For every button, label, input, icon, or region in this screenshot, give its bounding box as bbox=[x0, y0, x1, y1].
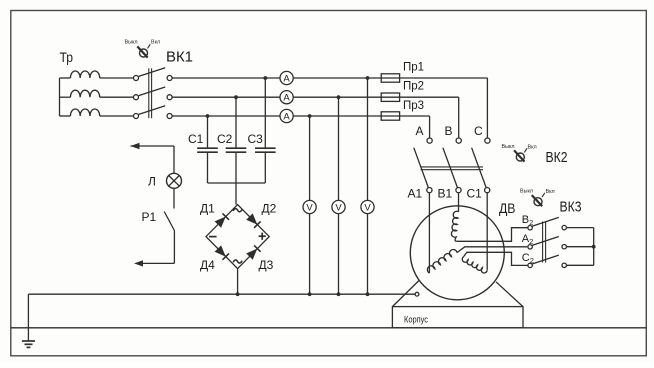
wire L3 ammeter to drop bbox=[293, 115, 429, 117]
wire chassis line bbox=[11, 327, 647, 329]
diode D2 bbox=[246, 213, 260, 227]
svg-text:V: V bbox=[335, 203, 342, 214]
node VK3 bar junction bbox=[592, 245, 596, 249]
wire line to capacitor C3 bbox=[264, 78, 266, 148]
node voltmeter V3 bus junction bbox=[366, 292, 370, 296]
svg-text:Д3: Д3 bbox=[259, 258, 274, 272]
label minus bbox=[209, 236, 217, 238]
wire to arrow bottom bbox=[137, 262, 175, 264]
contact VK3 left pole 3 bbox=[528, 263, 532, 267]
wire line to capacitor C2 bbox=[235, 97, 237, 147]
lamp L bbox=[167, 173, 182, 188]
contact VK3 right pole 1 bbox=[562, 225, 566, 229]
wire L2 VK1 to ammeter bbox=[172, 96, 280, 98]
contact VK2 top pole 2 bbox=[456, 138, 461, 143]
svg-text:А: А bbox=[416, 124, 424, 138]
winding transformer coil row 3 bbox=[70, 109, 99, 116]
svg-text:Выкл: Выкл bbox=[520, 189, 533, 195]
switch VK1 linkage bbox=[149, 68, 152, 118]
wire capacitor C2 to common bar bbox=[235, 153, 237, 183]
svg-text:ВК3: ВК3 bbox=[560, 199, 582, 216]
node voltmeter V2 bus junction bbox=[337, 292, 341, 296]
diode D3 bbox=[246, 245, 260, 259]
wire bridge bottom to bus bbox=[237, 269, 239, 295]
svg-text:Пр1: Пр1 bbox=[403, 62, 424, 74]
wire line to voltmeter V2 bbox=[338, 97, 340, 200]
motor DV stator circle bbox=[410, 206, 504, 300]
svg-text:Д2: Д2 bbox=[262, 202, 277, 216]
node L2 capacitor tap bbox=[234, 95, 238, 99]
svg-text:Выкл: Выкл bbox=[125, 40, 138, 46]
ground earth symbol bbox=[22, 341, 35, 347]
diode D1 bbox=[215, 213, 229, 227]
svg-text:А: А bbox=[283, 93, 290, 104]
winding transformer coil row 2 bbox=[70, 90, 99, 97]
wire transformer stub row 1 bbox=[60, 77, 71, 79]
svg-text:Д4: Д4 bbox=[200, 258, 215, 272]
switch P1 blade bbox=[164, 212, 174, 231]
capacitor C3 bbox=[255, 148, 276, 152]
arrow to external top bbox=[131, 143, 140, 149]
switch VK3 blade 3 bbox=[532, 255, 559, 264]
switch VK2 blade 1 bbox=[414, 148, 429, 188]
wire A1 into motor bbox=[428, 193, 430, 273]
wire capacitor common bar bbox=[208, 182, 266, 184]
node L3 voltmeter tap bbox=[308, 114, 312, 118]
contact VK3 right pole 2 bbox=[562, 245, 566, 249]
voltmeter V1 circle bbox=[303, 200, 316, 213]
svg-text:С1: С1 bbox=[467, 187, 483, 201]
svg-text:Пр2: Пр2 bbox=[403, 81, 424, 93]
wire L2 ammeter to drop bbox=[293, 96, 459, 98]
switch VK1 blade 2 bbox=[139, 87, 166, 96]
switch VK2 blade 3 bbox=[472, 148, 487, 188]
switch VK1 blade 1 bbox=[139, 68, 166, 77]
fuse Pr3 bbox=[381, 112, 399, 120]
winding transformer coil row 1 bbox=[70, 71, 99, 78]
contact VK2 top pole 3 bbox=[485, 138, 490, 143]
svg-text:Пр3: Пр3 bbox=[403, 100, 424, 112]
wire transformer stub row 3 bbox=[60, 115, 71, 117]
wire VK3 pole 3 to bar bbox=[567, 264, 594, 266]
svg-text:С1: С1 bbox=[188, 132, 204, 146]
svg-text:Выкл: Выкл bbox=[502, 144, 515, 150]
wire bus to earth bbox=[27, 294, 29, 341]
motor base left slant bbox=[392, 281, 419, 307]
voltmeter V2 circle bbox=[332, 200, 345, 213]
node L2 voltmeter tap bbox=[337, 95, 341, 99]
motor winding from C1 bbox=[462, 257, 487, 273]
contact VK2 bottom pole 1 bbox=[427, 188, 432, 193]
ammeter A1 circle bbox=[280, 71, 293, 84]
wire coil to VK1 row 3 bbox=[100, 115, 134, 117]
wire voltmeter V3 to bus bbox=[367, 214, 369, 295]
switch VK3 blade 2 bbox=[532, 237, 559, 246]
contact VK1 right pole 2 bbox=[167, 95, 172, 100]
wire B1 into motor bbox=[458, 193, 460, 212]
wire VK3 pole 1 to bar bbox=[567, 227, 594, 229]
svg-text:Вкл: Вкл bbox=[546, 189, 555, 195]
wire VK3 shorting bar bbox=[593, 228, 595, 266]
contact VK1 right pole 3 bbox=[167, 114, 172, 119]
svg-text:Д1: Д1 bbox=[200, 202, 215, 216]
switch VK3 blade 1 bbox=[532, 217, 559, 226]
capacitor C2 bbox=[226, 148, 247, 152]
wire winding A to A2 bbox=[457, 247, 527, 253]
wire C1 into motor bbox=[486, 193, 488, 270]
ammeter A2 circle bbox=[280, 91, 293, 104]
wire capacitor C1 to common bar bbox=[207, 153, 209, 183]
contact VK3 right pole 3 bbox=[562, 263, 566, 267]
contact VK3 left pole 2 bbox=[528, 245, 532, 249]
contact VK1 left pole 1 bbox=[134, 76, 139, 81]
svg-text:Вкл: Вкл bbox=[528, 145, 537, 151]
svg-text:Вкл: Вкл bbox=[151, 40, 160, 46]
node L1 capacitor tap bbox=[263, 76, 267, 80]
wire L2 drop to phase B bbox=[458, 97, 460, 138]
wire L1 VK1 to ammeter bbox=[172, 77, 280, 79]
svg-text:В: В bbox=[445, 124, 453, 138]
wire L1 ammeter to drop bbox=[293, 77, 487, 79]
diode bridge diamond bbox=[206, 205, 269, 269]
voltmeter V3 circle bbox=[361, 200, 374, 213]
wire capacitor C3 to common bar bbox=[264, 153, 266, 183]
svg-text:Р1: Р1 bbox=[142, 210, 157, 224]
wire line to voltmeter V1 bbox=[309, 116, 311, 200]
label AC top bbox=[233, 209, 242, 212]
wire line to voltmeter V3 bbox=[367, 78, 369, 200]
node L3 capacitor tap bbox=[206, 114, 210, 118]
wire voltmeter V2 to bus bbox=[338, 214, 340, 295]
motor base plinth rect bbox=[392, 307, 523, 328]
label AC bottom bbox=[233, 260, 242, 263]
fuse Pr1 bbox=[381, 74, 399, 82]
contact VK2 bottom pole 2 bbox=[456, 188, 461, 193]
contact VK2 bottom pole 3 bbox=[485, 188, 490, 193]
wire L1 drop to phase C bbox=[486, 78, 488, 138]
svg-text:А: А bbox=[283, 111, 290, 122]
diode D4 bbox=[215, 245, 229, 259]
motor base right slant bbox=[496, 282, 523, 307]
motor winding from A1 bbox=[427, 250, 457, 273]
wire L3 drop to phase A bbox=[429, 116, 431, 138]
wire line to capacitor C1 bbox=[207, 116, 209, 148]
svg-text:ВК1: ВК1 bbox=[166, 49, 193, 66]
svg-text:ВК2: ВК2 bbox=[546, 149, 568, 166]
contact VK1 right pole 1 bbox=[167, 76, 172, 81]
node voltmeter V1 bus junction bbox=[308, 292, 312, 296]
arrow to external bottom bbox=[134, 260, 143, 266]
node bridge-bus junction bbox=[236, 292, 240, 296]
wire ground bus bbox=[28, 293, 415, 295]
switch VK3 knob icon bbox=[532, 193, 545, 206]
svg-text:А1: А1 bbox=[408, 187, 423, 201]
wire VK3 pole 2 to bar bbox=[567, 246, 594, 248]
contact VK3 left pole 1 bbox=[528, 226, 532, 230]
ammeter A3 circle bbox=[280, 109, 293, 122]
wire switch P1 down bbox=[173, 231, 175, 264]
wire bar to bridge top bbox=[235, 183, 237, 205]
motor winding from B1 bbox=[451, 211, 458, 241]
wire winding C to C2 bbox=[464, 252, 528, 265]
svg-text:А: А bbox=[283, 73, 290, 84]
node L1 voltmeter tap bbox=[366, 76, 370, 80]
svg-text:V: V bbox=[364, 203, 371, 214]
svg-text:Корпус: Корпус bbox=[404, 314, 428, 324]
wire down to lamp bbox=[173, 146, 175, 173]
wire L3 VK1 to ammeter bbox=[172, 115, 280, 117]
switch VK2 linkage bbox=[421, 167, 483, 170]
fuse Pr2 bbox=[381, 93, 399, 101]
wire lamp to switch P1 bbox=[173, 188, 175, 208]
contact VK2 top pole 1 bbox=[427, 138, 432, 143]
switch VK2 knob icon bbox=[514, 148, 527, 161]
svg-text:Тр: Тр bbox=[60, 49, 74, 65]
switch VK2 blade 2 bbox=[443, 148, 458, 188]
svg-text:В1: В1 bbox=[438, 187, 453, 201]
wire coil to VK1 row 1 bbox=[100, 77, 134, 79]
wire voltmeter V1 to bus bbox=[309, 214, 311, 295]
wire arrow to corner bbox=[131, 145, 175, 147]
svg-text:С2: С2 bbox=[217, 132, 233, 146]
svg-text:V: V bbox=[306, 203, 313, 214]
label plus bbox=[259, 233, 266, 240]
svg-text:Л: Л bbox=[148, 175, 156, 189]
svg-text:С: С bbox=[474, 124, 483, 138]
wire winding B to B2 bbox=[456, 228, 528, 242]
switch VK1 blade 3 bbox=[139, 106, 166, 115]
wire coil to VK1 row 2 bbox=[100, 96, 134, 98]
contact VK1 left pole 3 bbox=[134, 114, 139, 119]
svg-text:С3: С3 bbox=[248, 132, 264, 146]
svg-text:ДВ: ДВ bbox=[499, 200, 516, 216]
capacitor C1 bbox=[197, 148, 218, 152]
switch VK1 knob icon bbox=[137, 44, 150, 57]
wire transformer left bus bbox=[59, 78, 61, 116]
wire transformer stub row 2 bbox=[60, 96, 71, 98]
switch VK3 linkage bbox=[543, 222, 546, 263]
contact motor case terminal bbox=[415, 292, 419, 296]
contact VK1 left pole 2 bbox=[134, 95, 139, 100]
